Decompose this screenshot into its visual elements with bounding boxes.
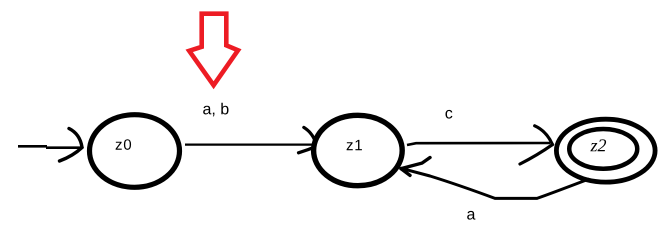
arrowhead into z1	[304, 127, 317, 144]
return wire z2 to z1	[403, 169, 589, 199]
return arrowhead into z1	[401, 158, 430, 169]
wire z0 to z1	[185, 143, 314, 145]
label a	[467, 211, 475, 220]
label z1	[347, 140, 362, 150]
wire z1 to z2	[407, 143, 550, 145]
label z2	[590, 139, 606, 151]
label c	[445, 110, 452, 119]
label z0	[116, 139, 131, 150]
label a, b	[203, 103, 228, 117]
red block arrow pointing down	[189, 14, 238, 86]
state z1	[314, 115, 403, 185]
start arrow wire	[18, 146, 81, 147]
state z2 outer circle	[556, 119, 655, 182]
state z2 inner circle	[569, 129, 637, 169]
start arrowhead	[69, 129, 82, 148]
state z0	[90, 115, 180, 188]
arrowhead into z2	[535, 126, 553, 145]
